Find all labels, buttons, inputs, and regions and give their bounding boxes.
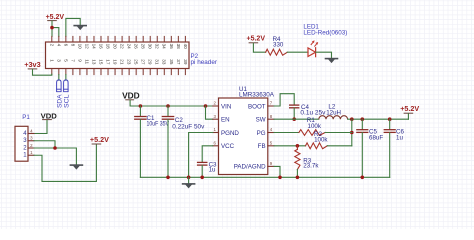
resistor R4 bbox=[266, 49, 288, 55]
svg-text:VDD: VDD bbox=[122, 91, 140, 100]
node junction C2 gnd bbox=[166, 176, 170, 180]
svg-text:10: 10 bbox=[77, 44, 82, 50]
connector P1 body bbox=[15, 126, 28, 161]
node junction pin2/pin3 bbox=[53, 146, 57, 150]
power +3v3 bbox=[24, 60, 41, 69]
svg-text:23.7k: 23.7k bbox=[303, 163, 319, 170]
svg-text:pi header: pi header bbox=[191, 59, 218, 66]
wire EN tap bbox=[206, 106, 213, 119]
wire pin6 to ground bbox=[66, 18, 80, 36]
svg-text:10uF 35V: 10uF 35V bbox=[147, 121, 170, 128]
pin stubs U1 left bbox=[213, 106, 219, 146]
pin names U1 left bbox=[221, 103, 239, 150]
wire +3v3 to pin1 bbox=[33, 70, 52, 76]
svg-text:8: 8 bbox=[70, 44, 75, 47]
capacitor C6 bbox=[384, 119, 396, 177]
svg-text:PG: PG bbox=[257, 130, 266, 137]
wire P1 pin1 to +5.2V bbox=[34, 145, 96, 182]
svg-text:LMR33630A: LMR33630A bbox=[239, 92, 275, 99]
wire VDD input rail bbox=[130, 100, 213, 106]
node junction gnd symbol bbox=[187, 176, 191, 180]
svg-text:0.22uF 50v: 0.22uF 50v bbox=[172, 123, 205, 130]
svg-text:BOOT: BOOT bbox=[248, 103, 266, 110]
node junction +5.2V bbox=[50, 26, 54, 30]
wire SDA stem bbox=[58, 75, 60, 81]
node junction FB/R3 bbox=[296, 144, 300, 148]
svg-text:+5.2V: +5.2V bbox=[247, 34, 266, 43]
svg-text:26: 26 bbox=[134, 44, 139, 50]
node junction C6 bbox=[388, 117, 392, 121]
svg-text:FB: FB bbox=[258, 143, 266, 150]
svg-text:3: 3 bbox=[56, 59, 61, 62]
svg-text:11: 11 bbox=[84, 59, 89, 64]
node SCL flag bbox=[64, 80, 69, 92]
wire SW rail bbox=[274, 118, 319, 120]
svg-text:SCL: SCL bbox=[63, 94, 70, 108]
wire SCL stem bbox=[65, 75, 67, 81]
svg-text:2: 2 bbox=[49, 44, 54, 47]
svg-text:12: 12 bbox=[84, 44, 89, 50]
svg-text:5: 5 bbox=[63, 59, 68, 62]
svg-text:100k: 100k bbox=[308, 123, 322, 130]
wire P1 pin3 bbox=[34, 141, 55, 148]
svg-text:1u: 1u bbox=[209, 167, 216, 174]
capacitor C3 bbox=[197, 162, 208, 177]
svg-text:23: 23 bbox=[127, 59, 132, 65]
node junction C1 bbox=[139, 104, 143, 108]
node junction PG pullup bbox=[350, 131, 354, 135]
svg-text:LED-Red(0603): LED-Red(0603) bbox=[303, 29, 347, 36]
wire VOUT rail bbox=[348, 118, 409, 120]
svg-text:68uF: 68uF bbox=[369, 134, 383, 141]
resistor R2 bbox=[274, 143, 352, 149]
svg-text:SDA: SDA bbox=[56, 94, 63, 108]
svg-text:7: 7 bbox=[70, 59, 75, 62]
svg-text:VCC: VCC bbox=[221, 143, 235, 150]
svg-text:9: 9 bbox=[77, 59, 82, 62]
LED LED1 symbol bbox=[308, 48, 316, 57]
svg-text:34: 34 bbox=[162, 44, 167, 50]
resistor R1 bbox=[274, 130, 352, 136]
node junction PAD gnd bbox=[278, 176, 282, 180]
svg-text:+5.2V: +5.2V bbox=[46, 12, 65, 21]
ground (header pin6) bbox=[73, 26, 87, 31]
svg-text:16: 16 bbox=[98, 44, 103, 50]
pin numbers U1 right (7,8,4,5,9) bbox=[270, 101, 273, 166]
wire branch to pin4 bbox=[52, 28, 59, 37]
svg-text:+5.2V: +5.2V bbox=[400, 104, 420, 113]
pin stubs P2 bottom row bbox=[52, 69, 186, 75]
svg-text:40: 40 bbox=[183, 44, 188, 50]
svg-text:330: 330 bbox=[273, 42, 284, 49]
inductor L2 bbox=[319, 116, 348, 120]
svg-text:18: 18 bbox=[105, 44, 110, 50]
op-amp U1 body bbox=[219, 98, 268, 175]
svg-text:+5.2V: +5.2V bbox=[90, 135, 110, 144]
pin stubs P1 bbox=[28, 134, 34, 156]
pin numbers P1 bbox=[30, 128, 33, 155]
svg-text:33: 33 bbox=[162, 59, 167, 65]
svg-text:36: 36 bbox=[169, 44, 174, 50]
svg-text:31: 31 bbox=[155, 59, 160, 65]
ground (main rail) bbox=[182, 177, 196, 188]
node junction EN tap bbox=[204, 104, 208, 108]
node junction C5 bbox=[361, 117, 365, 121]
wire VOUT to divider column bbox=[351, 119, 353, 146]
wire LED1 to ground bbox=[316, 52, 332, 58]
svg-text:32: 32 bbox=[155, 44, 160, 50]
wire VDD to P1 pin4 bbox=[34, 121, 47, 134]
capacitor C4 bbox=[289, 105, 299, 119]
wire PGND to ground rail bbox=[189, 133, 213, 178]
svg-text:38: 38 bbox=[176, 44, 181, 50]
pin names P1 (4,3,2,1) bbox=[23, 131, 27, 159]
power +5.2V (LED) bbox=[247, 34, 266, 43]
LED1 emission arrows bbox=[311, 40, 318, 46]
node junction divider tap bbox=[350, 117, 354, 121]
svg-text:+3v3: +3v3 bbox=[24, 60, 41, 69]
node junction C4/SW bbox=[292, 117, 296, 121]
svg-text:15: 15 bbox=[98, 59, 103, 65]
svg-text:35: 35 bbox=[169, 59, 174, 65]
svg-text:PAD/AGND: PAD/AGND bbox=[234, 164, 266, 171]
svg-text:1: 1 bbox=[49, 59, 54, 62]
node junction C5 gnd bbox=[361, 176, 365, 180]
svg-text:1u: 1u bbox=[396, 134, 403, 141]
svg-text:14: 14 bbox=[91, 44, 96, 50]
wire +5.2V to pin2 bbox=[51, 21, 53, 36]
power +5.2V (output) bbox=[400, 104, 420, 119]
svg-text:29: 29 bbox=[148, 59, 153, 65]
svg-text:P1: P1 bbox=[22, 114, 30, 121]
svg-text:28: 28 bbox=[141, 44, 146, 50]
node junction C3 gnd bbox=[200, 176, 204, 180]
pin names U1 right bbox=[234, 103, 266, 170]
resistor R3 bbox=[295, 146, 300, 178]
capacitor C5 bbox=[356, 119, 368, 177]
pin stubs P2 top row bbox=[52, 36, 186, 42]
svg-text:6: 6 bbox=[63, 44, 68, 47]
svg-text:21: 21 bbox=[120, 59, 125, 65]
power +5.2V (header) bbox=[46, 12, 65, 21]
ground (P1) bbox=[70, 165, 84, 170]
pi header P2 connector body bbox=[46, 42, 190, 69]
wire BOOT to C4 bbox=[274, 94, 294, 106]
svg-text:24: 24 bbox=[127, 44, 132, 50]
svg-text:PGND: PGND bbox=[221, 130, 239, 137]
svg-text:VIN: VIN bbox=[221, 103, 231, 110]
svg-text:19: 19 bbox=[113, 59, 118, 65]
svg-text:30: 30 bbox=[148, 44, 153, 50]
svg-text:22: 22 bbox=[120, 44, 125, 50]
svg-text:25: 25 bbox=[134, 59, 139, 65]
svg-text:37: 37 bbox=[176, 59, 181, 65]
wire R4 to LED1 bbox=[287, 51, 308, 53]
svg-text:4: 4 bbox=[56, 44, 61, 47]
svg-text:27: 27 bbox=[141, 59, 146, 65]
svg-text:100k: 100k bbox=[314, 137, 328, 144]
capacitor C2 bbox=[162, 106, 175, 177]
svg-text:12uH: 12uH bbox=[326, 109, 341, 116]
svg-text:SW: SW bbox=[256, 117, 266, 124]
wire P1 pin2 to ground bbox=[34, 148, 76, 165]
node junction C2 bbox=[166, 104, 170, 108]
power VDD (input rail) bbox=[122, 91, 140, 100]
node junction R3 gnd bbox=[296, 176, 300, 180]
svg-text:EN: EN bbox=[221, 117, 230, 124]
node SDA flag bbox=[57, 80, 62, 92]
power +5.2V (P1) bbox=[90, 135, 110, 144]
wire +5.2V to R4 bbox=[253, 43, 265, 52]
svg-text:39: 39 bbox=[183, 59, 188, 65]
ground (LED) bbox=[325, 59, 339, 64]
pin numbers P2 bottom row (1-39) bbox=[49, 59, 188, 65]
svg-text:20: 20 bbox=[113, 44, 118, 50]
wire PAD/AGND to gnd rail bbox=[274, 166, 280, 177]
capacitor C1 bbox=[134, 106, 147, 177]
pin stubs U1 right bbox=[268, 106, 274, 166]
pin numbers P2 top row (2-40) bbox=[49, 44, 188, 50]
power VDD (P1) bbox=[41, 112, 58, 121]
wire VCC to C3 bbox=[202, 146, 213, 162]
pin numbers U1 left (2,3,1,6) bbox=[214, 101, 217, 146]
svg-text:17: 17 bbox=[105, 59, 110, 65]
ground rail wire bbox=[140, 176, 389, 178]
svg-text:13: 13 bbox=[91, 59, 96, 65]
